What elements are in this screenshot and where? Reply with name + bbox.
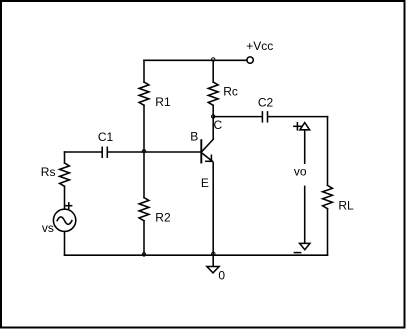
svg-text:R2: R2 bbox=[155, 211, 171, 225]
svg-text:Rs: Rs bbox=[41, 165, 56, 179]
svg-text:Rc: Rc bbox=[223, 84, 238, 98]
svg-text:C1: C1 bbox=[98, 130, 114, 144]
svg-text:vs: vs bbox=[42, 221, 54, 235]
svg-text:RL: RL bbox=[338, 199, 354, 213]
svg-text:C2: C2 bbox=[258, 96, 274, 110]
svg-text:+Vcc: +Vcc bbox=[246, 39, 273, 53]
svg-text:vo: vo bbox=[294, 165, 307, 179]
svg-text:B: B bbox=[190, 130, 198, 144]
svg-text:C: C bbox=[214, 118, 223, 132]
svg-text:R1: R1 bbox=[155, 95, 171, 109]
svg-text:0: 0 bbox=[218, 269, 225, 283]
svg-text:E: E bbox=[201, 176, 209, 190]
